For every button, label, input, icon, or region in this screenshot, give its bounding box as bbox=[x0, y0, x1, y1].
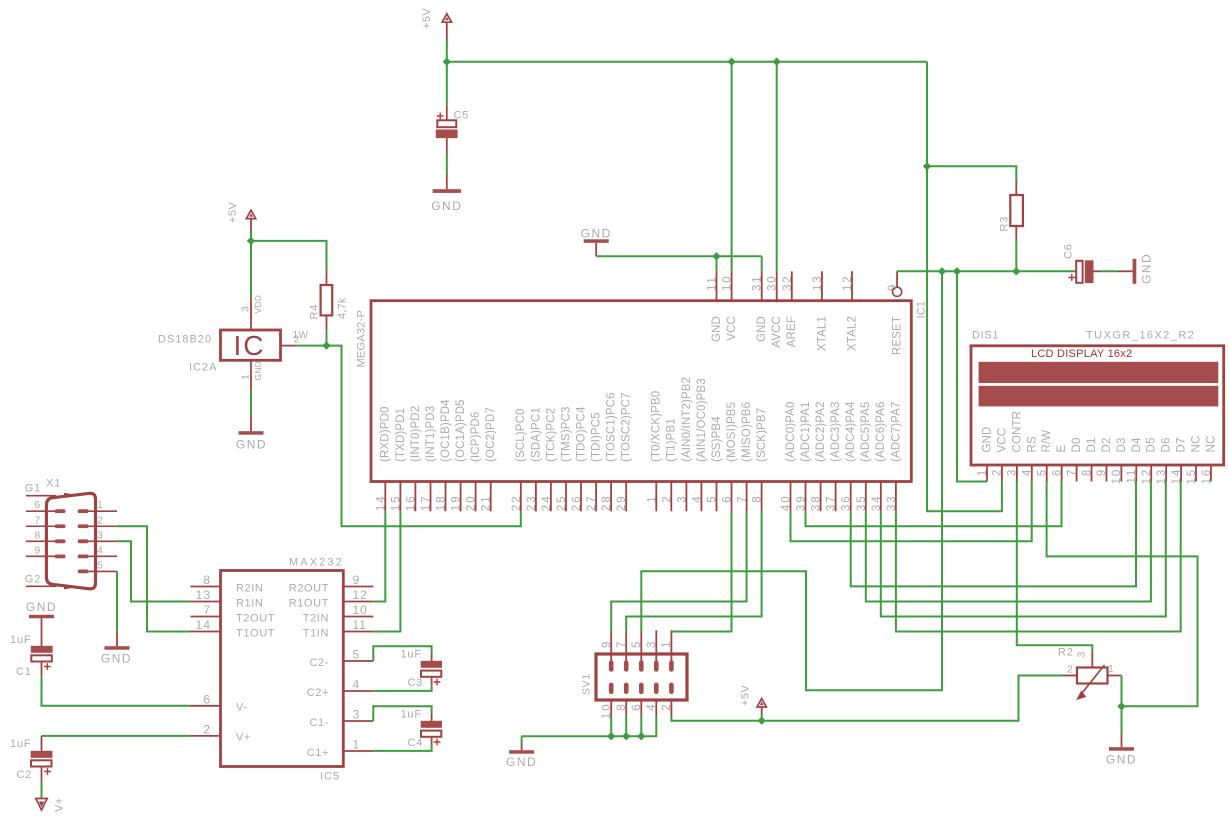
node junction +5V/DS18B20 bbox=[247, 237, 255, 245]
MAX232 right pins bbox=[289, 573, 374, 759]
svg-text:9: 9 bbox=[34, 544, 41, 556]
svg-text:(ADC7)PA7: (ADC7)PA7 bbox=[890, 401, 902, 462]
svg-text:(AIN1/OC0)PB3: (AIN1/OC0)PB3 bbox=[696, 378, 708, 462]
node junction SV1 pin6 gnd bbox=[637, 732, 645, 740]
ground GND below DS18B20 bbox=[236, 431, 267, 451]
svg-text:14: 14 bbox=[375, 495, 387, 512]
display DIS1 TUXGR_16X2_R2 box bbox=[971, 330, 1224, 466]
svg-text:13: 13 bbox=[196, 588, 211, 602]
svg-text:C6: C6 bbox=[1063, 243, 1075, 259]
svg-text:+5V: +5V bbox=[740, 684, 752, 706]
wire LCD D4 to ATmega pin 36 bbox=[851, 482, 1136, 587]
node junction +5V / R3 branch bbox=[923, 162, 931, 170]
ATmega32 bottom pins group PD bbox=[375, 377, 902, 511]
svg-text:(TXD)PD1: (TXD)PD1 bbox=[395, 408, 407, 462]
X1 right pins 1-5 bbox=[78, 499, 117, 573]
svg-text:5: 5 bbox=[631, 640, 643, 648]
svg-text:6: 6 bbox=[203, 693, 211, 707]
wire RESET net horizontal row bbox=[897, 270, 1076, 272]
svg-text:23: 23 bbox=[526, 495, 538, 512]
wire junction down to GND symbol bbox=[1121, 706, 1123, 735]
wire LCD E to ATmega pin 39 bbox=[806, 482, 1062, 527]
svg-text:9: 9 bbox=[1096, 468, 1108, 476]
svg-text:SV1: SV1 bbox=[581, 673, 593, 695]
svg-text:1: 1 bbox=[646, 495, 658, 503]
svg-text:3: 3 bbox=[240, 306, 252, 312]
svg-text:6: 6 bbox=[722, 495, 734, 503]
svg-text:(ADC6)PA6: (ADC6)PA6 bbox=[875, 401, 887, 462]
svg-text:RESET: RESET bbox=[892, 316, 904, 355]
svg-text:D1: D1 bbox=[1086, 437, 1098, 452]
svg-text:3: 3 bbox=[676, 495, 688, 503]
wire SV1 ground row bbox=[610, 716, 612, 736]
svg-text:(T1)PB1: (T1)PB1 bbox=[666, 418, 678, 462]
svg-text:D5: D5 bbox=[1146, 437, 1158, 452]
svg-text:(MOSI)PB5: (MOSI)PB5 bbox=[726, 402, 738, 462]
LCD pins 1-16 bbox=[977, 411, 1218, 485]
svg-text:32: 32 bbox=[782, 274, 794, 291]
svg-text:37: 37 bbox=[826, 495, 838, 512]
svg-text:G2: G2 bbox=[25, 573, 41, 585]
svg-text:(TDI)PC5: (TDI)PC5 bbox=[591, 412, 603, 462]
svg-text:CONTR: CONTR bbox=[1011, 411, 1023, 453]
svg-text:13: 13 bbox=[812, 274, 824, 291]
svg-text:12: 12 bbox=[353, 588, 368, 602]
svg-text:1: 1 bbox=[97, 499, 104, 511]
svg-text:C1: C1 bbox=[16, 666, 32, 678]
wire reset to ISP header SV1 pin 5 bbox=[641, 271, 942, 690]
ground GND below X1 bbox=[101, 646, 132, 665]
svg-text:16: 16 bbox=[1201, 468, 1213, 485]
wire +5V to DS18B20 VDD and R4 bbox=[250, 233, 252, 241]
wire LCD D6 to ATmega pin 34 bbox=[881, 482, 1166, 617]
svg-text:10: 10 bbox=[1111, 468, 1123, 485]
svg-text:GND: GND bbox=[1140, 253, 1154, 284]
wire +5V row from SV1 pin2 to R2 bbox=[671, 676, 1062, 721]
ground GND below C5 bbox=[431, 189, 462, 213]
svg-text:35: 35 bbox=[856, 495, 868, 512]
svg-text:(ADC1)PA1: (ADC1)PA1 bbox=[800, 401, 812, 462]
ground GND above ATmega GND/VCC pins bbox=[581, 226, 612, 256]
svg-text:4: 4 bbox=[353, 678, 361, 692]
svg-text:(TOSC1)PC6: (TOSC1)PC6 bbox=[606, 392, 618, 462]
wire DS18B20 GND down bbox=[250, 390, 252, 416]
svg-text:21: 21 bbox=[481, 495, 493, 512]
SV1 pins and pads bbox=[601, 630, 674, 719]
svg-text:T1OUT: T1OUT bbox=[236, 627, 275, 639]
svg-text:11: 11 bbox=[707, 275, 719, 291]
wire R3 bottom to RESET net bbox=[1015, 241, 1017, 271]
svg-text:(ADC2)PA2: (ADC2)PA2 bbox=[815, 401, 827, 462]
svg-text:TUXGR_16X2_R2: TUXGR_16X2_R2 bbox=[1086, 330, 1195, 342]
svg-text:18: 18 bbox=[436, 495, 448, 512]
node junction R2/RW/GND bbox=[1117, 702, 1125, 710]
svg-text:2: 2 bbox=[294, 334, 300, 346]
svg-text:1: 1 bbox=[1108, 663, 1114, 675]
node junction reset/R3 bbox=[1012, 267, 1020, 275]
svg-text:1uF: 1uF bbox=[10, 738, 31, 750]
svg-text:2: 2 bbox=[203, 723, 211, 737]
resistor R4 4,7k bbox=[309, 270, 349, 331]
svg-text:(INT0)PD2: (INT0)PD2 bbox=[410, 406, 422, 462]
wire AVCC drop to pin 30 bbox=[776, 62, 778, 272]
svg-text:GND: GND bbox=[26, 600, 57, 614]
LCD glass row 2 bbox=[979, 386, 1219, 407]
pin 1 GND of DS18B20 bbox=[240, 360, 264, 390]
LCD glass row 1 bbox=[979, 362, 1219, 383]
svg-text:6: 6 bbox=[34, 499, 41, 511]
svg-text:X1: X1 bbox=[46, 478, 61, 490]
svg-text:(ICP)PD6: (ICP)PD6 bbox=[470, 412, 482, 462]
svg-text:5: 5 bbox=[97, 559, 104, 571]
node junction R4/1W bbox=[322, 341, 330, 349]
node junction GND row / pin 11 bbox=[712, 252, 720, 260]
svg-text:5: 5 bbox=[353, 648, 361, 662]
svg-text:(AIN0/INT2)PB2: (AIN0/INT2)PB2 bbox=[681, 377, 693, 462]
wire LCD CONTR to R2 wiper bbox=[1017, 482, 1093, 653]
svg-text:2: 2 bbox=[97, 514, 104, 526]
svg-text:8: 8 bbox=[203, 573, 211, 587]
svg-text:36: 36 bbox=[841, 495, 853, 512]
svg-text:39: 39 bbox=[796, 495, 808, 512]
svg-text:D0: D0 bbox=[1071, 437, 1083, 452]
svg-text:20: 20 bbox=[466, 495, 478, 512]
svg-text:DS18B20: DS18B20 bbox=[158, 334, 212, 346]
capacitor C1 1uF bbox=[10, 618, 53, 678]
svg-text:VDD: VDD bbox=[253, 295, 263, 314]
svg-text:1uF: 1uF bbox=[401, 709, 422, 721]
connector X1 DB9 shell bbox=[46, 478, 96, 590]
svg-text:7: 7 bbox=[1066, 468, 1078, 476]
svg-text:C3: C3 bbox=[408, 677, 424, 689]
wire +5V rail from supply symbol down to rail bbox=[446, 40, 448, 62]
connector SV1 ISP header box bbox=[581, 654, 688, 700]
node junction +5V row bbox=[758, 717, 766, 725]
svg-text:3: 3 bbox=[97, 529, 104, 541]
svg-text:VCC: VCC bbox=[996, 428, 1008, 453]
svg-text:2: 2 bbox=[992, 468, 1004, 476]
svg-text:11: 11 bbox=[1126, 468, 1138, 484]
svg-text:28: 28 bbox=[601, 495, 613, 512]
svg-text:17: 17 bbox=[421, 495, 433, 512]
svg-text:9: 9 bbox=[887, 283, 899, 291]
node junction +5V at C5 tap bbox=[443, 58, 451, 66]
svg-text:GND: GND bbox=[711, 316, 723, 342]
wire C2 to V+ arrow bbox=[41, 781, 43, 798]
svg-text:(T0/XCK)PB0: (T0/XCK)PB0 bbox=[651, 391, 663, 462]
svg-text:IC1: IC1 bbox=[916, 301, 928, 319]
svg-text:6: 6 bbox=[1051, 468, 1063, 476]
svg-text:C2+: C2+ bbox=[307, 687, 329, 699]
svg-text:14: 14 bbox=[196, 618, 211, 632]
op-amp U1 equivalent: microcontroller IC1 MEGA32-P box bbox=[356, 301, 928, 482]
wire R1OUT to ATmega pin 14 bbox=[373, 511, 385, 601]
wire VCC drop to pin 10 bbox=[731, 62, 733, 272]
svg-text:7: 7 bbox=[34, 514, 41, 526]
svg-text:T1IN: T1IN bbox=[303, 627, 329, 639]
wire MOSI: ATmega pin6 to SV1 pin1 bbox=[671, 511, 731, 631]
MAX232 left pins bbox=[191, 573, 276, 744]
IC MAX232 IC5 box bbox=[221, 557, 344, 783]
svg-text:38: 38 bbox=[811, 495, 823, 512]
svg-text:R3: R3 bbox=[999, 216, 1011, 232]
wire 1W net from DS18B20 to ATmega pin 22 bbox=[296, 346, 521, 527]
svg-text:C2-: C2- bbox=[309, 657, 329, 669]
svg-text:4: 4 bbox=[691, 495, 703, 503]
svg-text:4: 4 bbox=[97, 544, 104, 556]
capacitor C5 bbox=[436, 62, 469, 189]
wire SCK: ATmega pin8 to SV1 pin7 bbox=[626, 511, 761, 630]
node junction SV1 pin10 gnd bbox=[607, 732, 615, 740]
capacitor C4 1uF bbox=[373, 706, 442, 751]
svg-text:11: 11 bbox=[353, 618, 367, 632]
svg-text:GND: GND bbox=[101, 652, 132, 666]
svg-text:19: 19 bbox=[451, 495, 463, 512]
svg-text:1: 1 bbox=[240, 374, 252, 380]
svg-text:R2: R2 bbox=[1058, 646, 1074, 658]
svg-text:15: 15 bbox=[1186, 468, 1198, 485]
svg-text:(ADC0)PA0: (ADC0)PA0 bbox=[785, 401, 797, 462]
svg-text:E: E bbox=[1056, 445, 1068, 453]
svg-text:AVCC: AVCC bbox=[771, 316, 783, 348]
svg-text:9: 9 bbox=[353, 573, 361, 587]
svg-text:8: 8 bbox=[752, 495, 764, 503]
svg-text:5: 5 bbox=[1037, 468, 1049, 476]
power symbol +5V (DS18B20) bbox=[227, 201, 256, 233]
svg-text:25: 25 bbox=[556, 495, 568, 512]
svg-text:XTAL1: XTAL1 bbox=[816, 316, 828, 351]
svg-text:R1IN: R1IN bbox=[236, 597, 263, 609]
svg-text:(MISO)PB6: (MISO)PB6 bbox=[741, 402, 753, 462]
pin 3 VDD of DS18B20 bbox=[240, 295, 264, 330]
node junction reset/LCD drop bbox=[953, 267, 961, 275]
svg-text:GND: GND bbox=[756, 316, 768, 342]
svg-text:40: 40 bbox=[781, 495, 793, 512]
svg-text:16: 16 bbox=[405, 495, 417, 512]
power symbol V+ (down arrow) bbox=[36, 797, 66, 812]
svg-text:15: 15 bbox=[390, 495, 402, 512]
svg-text:7: 7 bbox=[737, 495, 749, 503]
wire MISO: ATmega pin7 to SV1 pin9 bbox=[611, 511, 746, 630]
svg-text:3: 3 bbox=[353, 708, 361, 722]
svg-text:2: 2 bbox=[1067, 664, 1073, 676]
svg-text:MAX232: MAX232 bbox=[289, 557, 344, 569]
svg-text:6: 6 bbox=[631, 703, 643, 711]
capacitor C2 1uF bbox=[10, 736, 52, 781]
svg-text:VCC: VCC bbox=[726, 316, 738, 341]
svg-text:(ADC4)PA4: (ADC4)PA4 bbox=[845, 401, 857, 462]
X1 left pins 6-9 bbox=[26, 499, 66, 558]
svg-text:33: 33 bbox=[886, 495, 898, 512]
wire X1 pin3 to MAX232 R1IN bbox=[117, 541, 191, 601]
svg-text:(SS)PB4: (SS)PB4 bbox=[711, 416, 723, 462]
svg-text:3: 3 bbox=[646, 640, 658, 648]
ground GND left of SV1 bbox=[506, 736, 537, 769]
ground GND right of C6 (rotated) bbox=[1133, 253, 1154, 284]
wire +5V top rail horizontal bbox=[447, 61, 927, 63]
svg-text:4,7k: 4,7k bbox=[337, 297, 349, 319]
svg-text:+5V: +5V bbox=[421, 7, 433, 29]
svg-text:24: 24 bbox=[541, 495, 553, 512]
svg-text:26: 26 bbox=[571, 495, 583, 512]
svg-text:NC: NC bbox=[1205, 436, 1217, 453]
svg-text:R4: R4 bbox=[309, 304, 321, 320]
svg-text:GND: GND bbox=[253, 361, 263, 381]
svg-text:(TOSC2)PC7: (TOSC2)PC7 bbox=[621, 392, 633, 462]
capacitor C3 1uF bbox=[373, 646, 442, 691]
svg-text:4: 4 bbox=[1022, 468, 1034, 476]
svg-text:1: 1 bbox=[977, 468, 989, 476]
svg-text:34: 34 bbox=[871, 495, 883, 512]
svg-text:(TMS)PC3: (TMS)PC3 bbox=[560, 406, 572, 462]
svg-text:(OC1A)PD5: (OC1A)PD5 bbox=[455, 399, 467, 462]
svg-text:10: 10 bbox=[722, 274, 734, 291]
svg-text:IC5: IC5 bbox=[320, 771, 340, 783]
svg-text:T2OUT: T2OUT bbox=[236, 612, 275, 624]
svg-text:R1OUT: R1OUT bbox=[289, 597, 329, 609]
ground GND below R2 bbox=[1106, 747, 1137, 766]
svg-text:IC2A: IC2A bbox=[189, 362, 217, 374]
IC sensor DS18B20 IC2A bbox=[158, 330, 281, 374]
svg-text:2: 2 bbox=[661, 703, 673, 711]
svg-text:5: 5 bbox=[707, 495, 719, 503]
svg-text:(TCK)PC2: (TCK)PC2 bbox=[545, 408, 557, 462]
svg-text:C1+: C1+ bbox=[307, 747, 329, 759]
svg-text:1: 1 bbox=[661, 640, 673, 648]
svg-text:8: 8 bbox=[34, 529, 41, 541]
svg-text:22: 22 bbox=[511, 495, 523, 512]
pin 9 RESET with inversion bubble bbox=[887, 271, 903, 355]
svg-text:1uF: 1uF bbox=[10, 634, 31, 646]
svg-text:AREF: AREF bbox=[786, 316, 798, 347]
svg-text:(TDO)PC4: (TDO)PC4 bbox=[575, 406, 587, 462]
svg-text:V+: V+ bbox=[54, 797, 66, 812]
svg-text:(ADC3)PA3: (ADC3)PA3 bbox=[830, 401, 842, 462]
wire +5V rail right drop to LCD VCC bbox=[927, 62, 1002, 512]
svg-text:D3: D3 bbox=[1116, 437, 1128, 452]
capacitor C6 bbox=[1063, 243, 1133, 283]
potentiometer R2 bbox=[1058, 646, 1122, 700]
svg-text:4: 4 bbox=[646, 703, 658, 711]
ground GND above C1 bbox=[26, 600, 57, 619]
svg-text:T2IN: T2IN bbox=[303, 612, 329, 624]
power symbol +5V (bottom) bbox=[740, 684, 767, 720]
wire LCD D5 to ATmega pin 35 bbox=[866, 482, 1151, 602]
wire R2 pin1 to GND bbox=[1121, 676, 1123, 707]
pin 2 DQ of DS18B20 bbox=[281, 330, 309, 345]
svg-text:D6: D6 bbox=[1161, 437, 1173, 452]
wire GND to pins 11 and 31 bbox=[596, 255, 762, 257]
svg-text:R2OUT: R2OUT bbox=[289, 582, 329, 594]
node junction reset/SV1 drop bbox=[938, 267, 946, 275]
svg-text:R2IN: R2IN bbox=[236, 582, 263, 594]
svg-text:R/W: R/W bbox=[1041, 430, 1053, 453]
ATmega32 top pins bbox=[707, 271, 859, 351]
svg-text:(SDA)PC1: (SDA)PC1 bbox=[530, 407, 542, 462]
svg-text:(OC1B)PD4: (OC1B)PD4 bbox=[440, 399, 452, 462]
svg-text:(INT1)PD3: (INT1)PD3 bbox=[425, 406, 437, 462]
wire LCD D7 to ATmega pin 33 bbox=[896, 482, 1181, 632]
svg-text:C1-: C1- bbox=[309, 717, 329, 729]
svg-text:GND: GND bbox=[1106, 753, 1137, 767]
svg-text:MEGA32-P: MEGA32-P bbox=[356, 310, 368, 368]
svg-text:7: 7 bbox=[616, 640, 628, 648]
svg-text:8: 8 bbox=[616, 703, 628, 711]
svg-text:G1: G1 bbox=[25, 483, 41, 495]
svg-text:2: 2 bbox=[661, 495, 673, 503]
svg-text:V-: V- bbox=[236, 702, 248, 714]
svg-text:D7: D7 bbox=[1176, 437, 1188, 452]
svg-text:(OC2)PD7: (OC2)PD7 bbox=[485, 407, 497, 462]
svg-text:GND: GND bbox=[581, 226, 612, 240]
wire LCD RS to ATmega pin 40 bbox=[791, 482, 1032, 542]
wire X1 pin2 to MAX232 T1OUT bbox=[117, 526, 191, 631]
svg-text:27: 27 bbox=[586, 495, 598, 512]
svg-text:GND: GND bbox=[236, 438, 267, 452]
svg-text:V+: V+ bbox=[236, 732, 251, 744]
svg-text:3: 3 bbox=[1007, 468, 1019, 476]
wire V+ row to C2 bbox=[42, 735, 191, 737]
svg-text:XTAL2: XTAL2 bbox=[846, 316, 858, 351]
svg-text:(SCL)PC0: (SCL)PC0 bbox=[515, 408, 527, 462]
svg-text:9: 9 bbox=[601, 640, 613, 648]
resistor R3 bbox=[999, 181, 1023, 242]
svg-text:1uF: 1uF bbox=[401, 649, 422, 661]
svg-text:(SCK)PB7: (SCK)PB7 bbox=[756, 408, 768, 462]
node junction rail/AVCC bbox=[773, 58, 781, 66]
svg-text:30: 30 bbox=[767, 274, 779, 291]
svg-text:NC: NC bbox=[1191, 436, 1203, 453]
wire T1IN to ATmega pin 15 bbox=[373, 511, 400, 631]
svg-text:31: 31 bbox=[752, 274, 764, 291]
svg-text:29: 29 bbox=[616, 495, 628, 512]
svg-text:GND: GND bbox=[982, 426, 994, 452]
svg-text:(ADC5)PA5: (ADC5)PA5 bbox=[860, 401, 872, 462]
svg-text:10: 10 bbox=[353, 603, 368, 617]
svg-text:DIS1: DIS1 bbox=[972, 330, 999, 342]
node junction rail/VCC bbox=[727, 58, 735, 66]
svg-text:(RXD)PD0: (RXD)PD0 bbox=[380, 406, 392, 462]
svg-text:3: 3 bbox=[1076, 651, 1088, 657]
wire X1 pin5 to GND bbox=[116, 571, 118, 631]
wire reset row to LCD pin 1 bbox=[957, 271, 987, 481]
svg-text:D2: D2 bbox=[1101, 437, 1113, 452]
power symbol +5V (top, above C5) bbox=[421, 7, 451, 40]
svg-text:7: 7 bbox=[203, 603, 211, 617]
svg-text:GND: GND bbox=[506, 755, 537, 769]
wire R4 bottom to 1W net bbox=[326, 331, 328, 346]
svg-text:LCD DISPLAY 16x2: LCD DISPLAY 16x2 bbox=[1031, 348, 1132, 360]
X1 ground lugs G1 G2 bbox=[25, 483, 56, 587]
wire C1 to V- bbox=[42, 676, 191, 706]
svg-text:C4: C4 bbox=[408, 737, 424, 749]
svg-text:RS: RS bbox=[1026, 436, 1038, 452]
wire +5V branch to R3 top bbox=[927, 166, 1016, 180]
svg-text:8: 8 bbox=[1081, 468, 1093, 476]
svg-text:IC: IC bbox=[234, 330, 266, 361]
svg-text:D4: D4 bbox=[1131, 437, 1143, 452]
svg-text:GND: GND bbox=[431, 199, 462, 213]
svg-text:C2: C2 bbox=[17, 769, 33, 781]
svg-text:12: 12 bbox=[842, 274, 854, 291]
svg-text:1: 1 bbox=[353, 738, 361, 752]
node junction SV1 pin8 gnd bbox=[622, 732, 630, 740]
svg-text:+5V: +5V bbox=[227, 201, 239, 223]
wire LCD R/W to GND junction bbox=[1047, 482, 1198, 707]
